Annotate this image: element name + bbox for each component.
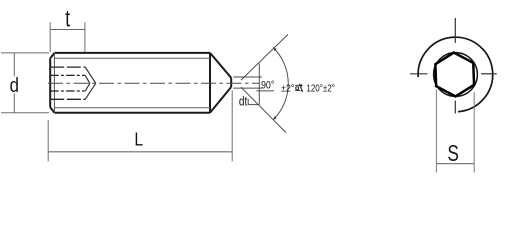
thread root bottom bbox=[55, 107, 211, 109]
socket hidden line 1 bbox=[50, 66, 85, 68]
t dimension extension lines bbox=[50, 22, 85, 52]
tip flat top extension line bbox=[233, 76, 262, 78]
wire left face bbox=[49, 58, 51, 107]
L dimension extension lines bbox=[48, 91, 232, 162]
S extension line left bbox=[435, 90, 437, 173]
svg-text:t: t bbox=[65, 6, 70, 33]
svg-text:d: d bbox=[10, 75, 19, 97]
socket hidden line 3 bbox=[50, 90, 85, 92]
t dimension line bbox=[50, 29, 85, 31]
svg-text:S: S bbox=[447, 140, 459, 166]
svg-text:L: L bbox=[134, 130, 143, 150]
d dimension extension lines bbox=[1, 53, 49, 113]
angle line lower bbox=[241, 87, 286, 133]
angle line upper bbox=[241, 34, 288, 80]
dt dimension vertical line bbox=[258, 64, 260, 105]
socket cone outer V bbox=[85, 67, 96, 99]
glyph huo (or) bbox=[295, 84, 302, 92]
S dimension line bbox=[436, 163, 474, 165]
dt leader elbow bbox=[247, 99, 249, 105]
arc arrowhead bottom bbox=[273, 116, 276, 120]
wire chamfer top bbox=[50, 53, 54, 58]
dt leader bbox=[248, 104, 259, 106]
wire tip flat bbox=[230, 78, 232, 87]
thread root top bbox=[55, 57, 211, 59]
centerline tick top bbox=[454, 18, 456, 43]
hex socket bbox=[435, 53, 474, 97]
center axis bbox=[48, 82, 259, 84]
centerline tick right bbox=[481, 73, 497, 75]
wire cone bottom bbox=[210, 87, 231, 113]
svg-text:dt: dt bbox=[239, 94, 248, 108]
90 underline bbox=[256, 90, 274, 92]
wire right edge bbox=[209, 53, 211, 113]
svg-text:120°±2°: 120°±2° bbox=[306, 82, 335, 94]
S extension line right bbox=[473, 92, 475, 173]
end view inner circle bbox=[434, 53, 478, 97]
wire chamfer bottom bbox=[50, 107, 54, 112]
svg-text:±2°: ±2° bbox=[281, 82, 295, 94]
wire top edge bbox=[55, 52, 211, 54]
svg-text:90°: 90° bbox=[261, 79, 274, 91]
socket hidden line 2 bbox=[50, 74, 85, 76]
centerline tick bottom bbox=[454, 101, 456, 114]
socket hidden line 4 bbox=[50, 98, 85, 100]
end view outer circle (broken bottom-left) bbox=[418, 37, 493, 112]
tip flat bottom extension line bbox=[233, 87, 262, 89]
arc arrowhead top bbox=[273, 48, 276, 52]
d dimension line bbox=[13, 53, 15, 113]
L dimension line bbox=[48, 151, 232, 153]
screw body outline bbox=[50, 53, 231, 113]
centerline tick left bbox=[410, 73, 428, 75]
wire cone top bbox=[210, 53, 231, 78]
angle arc bbox=[273, 48, 288, 120]
wire bottom edge bbox=[55, 112, 211, 114]
socket cone inner V bbox=[85, 75, 90, 91]
chamfer edge line bbox=[53, 53, 55, 113]
